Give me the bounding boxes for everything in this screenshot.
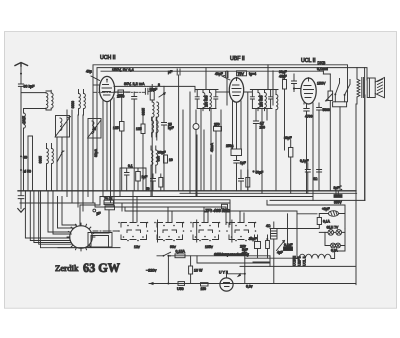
coil pair osc	[71, 90, 86, 116]
capacitor C10	[292, 74, 302, 92]
wire T2 top	[250, 65, 278, 90]
rectifier stack	[266, 222, 277, 284]
svg-text:12v: 12v	[134, 245, 140, 249]
coil L1	[46, 90, 53, 110]
svg-text:50µF: 50µF	[256, 171, 264, 175]
rectifier tube UY II	[219, 271, 246, 292]
resistor R9 10W	[189, 256, 203, 284]
svg-text:150V, 2V 6,4: 150V, 2V 6,4	[112, 68, 134, 72]
svg-text:UCH II: UCH II	[100, 55, 116, 61]
svg-text:4Ω: 4Ω	[266, 224, 271, 228]
tube UCH II U1	[99, 76, 114, 101]
T2 capacitor left	[250, 90, 254, 109]
resistor R8 on line	[334, 195, 343, 205]
svg-text:250µ: 250µ	[226, 144, 234, 148]
svg-text:74 Ω: 74 Ω	[104, 197, 112, 201]
grid arrow UBF	[222, 76, 230, 80]
svg-text:0,1A: 0,1A	[323, 220, 331, 224]
speaker SP	[367, 78, 384, 98]
IF coil pair 2 under UCH	[152, 117, 158, 137]
left vertical wires group 1	[57, 110, 72, 203]
svg-text:150: 150	[201, 287, 207, 291]
label 80V line	[114, 91, 130, 93]
svg-text:41mA: 41mA	[210, 142, 214, 152]
svg-text:125: 125	[113, 126, 119, 130]
wire UCH grid left	[93, 84, 100, 86]
electrolytic C50a	[249, 235, 261, 258]
mains switch S1	[334, 79, 350, 102]
IF2 coil pair lower	[151, 146, 160, 197]
dial nested boxes	[88, 233, 112, 248]
svg-text:150V: 150V	[317, 82, 326, 86]
grid cap arrow UCH	[86, 70, 100, 81]
sub rc network box	[120, 164, 147, 197]
svg-text:Zerdik: Zerdik	[55, 263, 79, 273]
svg-text:30µF: 30µF	[279, 70, 287, 74]
svg-text:4µF: 4µF	[277, 251, 283, 255]
top bus A	[93, 65, 348, 155]
voltage labels under cans	[134, 244, 246, 249]
wire block top link	[270, 228, 297, 230]
IF transformer T1 coils	[203, 90, 211, 111]
resistor 74ohm box	[104, 197, 114, 205]
labels 30uF 40uF	[279, 70, 287, 79]
svg-text:2000: 2000	[38, 156, 42, 164]
svg-text:105v: 105v	[205, 245, 213, 249]
T2 extra coil	[276, 90, 278, 191]
mains switch S2	[163, 252, 171, 256]
svg-text:1µF: 1µF	[142, 175, 148, 179]
resistor small on y207	[222, 204, 228, 209]
svg-text:0,1: 0,1	[128, 164, 133, 168]
rectangle outline around UCL top	[227, 71, 273, 105]
wire stubs to IF cans	[133, 191, 244, 242]
pot P1 circle	[193, 110, 199, 197]
svg-text:40µ: 40µ	[86, 70, 92, 74]
ground bus y191	[18, 190, 356, 192]
wire boxes to dial	[92, 210, 109, 233]
svg-text:3µF: 3µF	[334, 186, 340, 190]
AVC dash line	[93, 91, 145, 93]
wire UCH plate	[114, 86, 195, 89]
node dot near dial	[93, 209, 101, 215]
wires below UBF	[233, 101, 242, 149]
lamp cluster PTC	[331, 243, 341, 252]
electrolytic 4uF blob	[277, 247, 293, 255]
tap arrow rectifier	[277, 241, 293, 251]
node 50uF	[252, 170, 263, 174]
svg-text:0,1µF: 0,1µF	[300, 159, 309, 163]
resistor box under UBF	[226, 144, 242, 156]
wavetrap arrow	[57, 151, 64, 162]
svg-text:0000: 0000	[71, 101, 75, 109]
wires bend into dial top	[20, 197, 230, 226]
svg-text:40µF: 40µF	[279, 75, 287, 79]
psu block bottom wires	[240, 229, 355, 267]
top bus C	[101, 70, 323, 72]
tube UCL II U3	[301, 77, 316, 104]
svg-text:µF: µF	[97, 212, 101, 216]
tube UBF II U2	[229, 77, 243, 102]
NTC resistor	[297, 214, 331, 229]
right vertical wires	[356, 95, 365, 285]
label 86kpF	[158, 83, 165, 97]
svg-text:8: 8	[158, 83, 160, 87]
wire y207 y211	[112, 197, 297, 212]
svg-text:50: 50	[146, 187, 150, 191]
components right mid	[284, 136, 293, 193]
svg-text:250: 250	[260, 126, 266, 130]
dial lamps	[325, 226, 345, 236]
coil L2	[22, 113, 26, 191]
svg-text:75V: 75V	[238, 72, 245, 76]
resistor R4 250	[214, 123, 222, 191]
PSU block: oval thermal fuse	[322, 207, 339, 216]
wire left pair	[28, 136, 33, 191]
left vertical wires group 2	[78, 115, 93, 211]
wire L1 to left coil	[24, 109, 47, 114]
svg-text:UCL II: UCL II	[301, 58, 316, 64]
node dot antenna	[20, 73, 22, 75]
svg-text:5000: 5000	[323, 108, 331, 112]
IF coil pair under UCH	[141, 102, 159, 197]
vertical joint x168	[167, 255, 169, 285]
wire antenna branch	[21, 93, 46, 191]
mid vertical wires	[183, 92, 221, 197]
svg-text:125: 125	[136, 127, 142, 131]
capacitor C4 40uF	[215, 72, 228, 78]
svg-text:80V, 2,2 mA: 80V, 2,2 mA	[124, 82, 145, 86]
wire T1 top	[195, 68, 218, 92]
svg-text:M 50: M 50	[23, 170, 31, 174]
heater choke humps	[293, 254, 335, 258]
capacitor C13 3uF	[334, 186, 340, 195]
components row under IF1	[146, 174, 163, 191]
resistor R7	[283, 74, 287, 150]
resistor 10 small	[158, 151, 173, 164]
wire UCL top corner	[322, 71, 324, 74]
svg-text:~220v: ~220v	[146, 269, 157, 273]
tuning capacitor dial	[67, 223, 95, 251]
electrolytic dots	[340, 185, 342, 190]
fuse F1 0.15A	[175, 250, 185, 258]
svg-text:1µF: 1µF	[240, 161, 246, 165]
svg-text:350V: 350V	[334, 201, 343, 205]
T1 capacitor left	[195, 90, 199, 109]
wire psu top	[297, 211, 345, 258]
svg-text:+2µF: +2µF	[322, 207, 330, 211]
wire T2 bottom	[252, 109, 272, 194]
svg-text:2000: 2000	[117, 95, 125, 99]
svg-text:30µF: 30µF	[158, 151, 166, 155]
dashed can dots	[118, 222, 256, 242]
capacitor C8	[253, 121, 265, 170]
wire speaker top	[365, 68, 367, 80]
bus y196	[100, 196, 313, 198]
wire x330 top	[323, 73, 330, 75]
capacitor C14	[300, 159, 310, 193]
resistor box 2	[105, 206, 115, 210]
resistor 2000 on AVC	[117, 90, 125, 99]
ground arrow	[18, 209, 24, 213]
top bus B	[97, 68, 365, 201]
mains rail top	[157, 255, 270, 257]
capacitor 50uF mid	[145, 88, 157, 95]
wire UBF plate	[244, 92, 252, 191]
capacitor C6 25kpF	[162, 86, 174, 190]
capacitor C2 to ground	[18, 191, 24, 209]
wire y205 to psu	[267, 200, 345, 213]
svg-text:10: 10	[169, 158, 173, 162]
capacitor C12 5000	[317, 103, 330, 191]
capacitor C11 4700	[304, 104, 313, 119]
psu inner verticals	[286, 214, 288, 247]
dashed IF can row	[121, 223, 255, 240]
cap 5uF	[242, 245, 248, 284]
wavetrap coils	[38, 144, 53, 191]
svg-text:0,15A: 0,15A	[176, 250, 186, 254]
resistor vertical small	[266, 239, 270, 258]
svg-text:0,1µF: 0,1µF	[284, 243, 293, 247]
oscillator box OSC2	[88, 119, 102, 139]
dash-dot gang link	[93, 230, 118, 232]
IF transformer T2 coils	[258, 90, 266, 111]
T2 capacitor right	[269, 90, 273, 109]
svg-text:UBF II: UBF II	[230, 56, 245, 62]
svg-text:50µF: 50µF	[249, 237, 257, 241]
capacitor C9	[239, 170, 244, 191]
capacitor C-ant 80kpF	[18, 84, 35, 93]
resistor R3 125	[136, 110, 145, 191]
label 75V box	[237, 71, 257, 76]
svg-text:80 kpF: 80 kpF	[24, 85, 36, 89]
svg-text:M: M	[93, 127, 96, 131]
node dot x21 y170	[20, 169, 31, 174]
svg-text:300: 300	[156, 156, 160, 162]
bus y193	[180, 192, 357, 194]
svg-text:4Ω: 4Ω	[313, 177, 318, 181]
mid drop wires to dial	[48, 191, 77, 234]
capacitor C15	[313, 170, 322, 191]
capacitor under UBF	[234, 156, 246, 191]
resistor R5	[246, 170, 250, 191]
wire rail to block	[197, 256, 270, 267]
wire T1 bottom	[197, 109, 216, 191]
wire UBF left grid	[216, 91, 229, 93]
oscillator box OSC1	[55, 116, 71, 138]
svg-text:250: 250	[214, 123, 220, 127]
capacitor C3 0.1uF on bus	[168, 69, 180, 191]
resistor U50 on rail	[177, 282, 185, 291]
node dot x21 y156	[20, 155, 27, 159]
wires below UCL	[304, 103, 313, 200]
resistor R1 under UCH	[113, 94, 124, 190]
svg-text:30µF: 30µF	[284, 136, 292, 140]
resistor R2	[150, 85, 154, 103]
svg-text:6,3v: 6,3v	[246, 285, 253, 289]
mid horizontal lines lower	[125, 203, 230, 225]
output transformer TR1	[357, 68, 363, 104]
bus y200	[270, 199, 365, 201]
svg-text:98v: 98v	[170, 245, 176, 249]
switch box	[333, 102, 347, 191]
antenna	[15, 63, 28, 85]
capacitor C5 under UCH	[132, 92, 137, 191]
svg-text:200 500: 200 500	[260, 95, 264, 107]
resistor on rail right	[201, 283, 209, 291]
svg-text:tg=4: tg=4	[249, 72, 256, 76]
svg-text:63 GW: 63 GW	[83, 261, 120, 275]
svg-text:80µA: 80µA	[94, 148, 98, 157]
svg-text:U50: U50	[177, 287, 184, 291]
svg-text:GLH 7V: GLH 7V	[327, 226, 340, 230]
T1 capacitor right	[214, 90, 218, 109]
volume pot P2	[326, 74, 333, 191]
svg-text:40µF: 40µF	[215, 72, 223, 76]
svg-text:10 W: 10 W	[194, 269, 203, 273]
electrolytic C50b	[266, 235, 268, 240]
mains rail bottom	[149, 282, 356, 285]
wires under UCH pins	[103, 98, 114, 207]
svg-text:0,1mal: 0,1mal	[317, 67, 328, 71]
svg-text:30: 30	[23, 156, 27, 160]
left drop wires to dial	[25, 191, 76, 248]
wire dial bottom tangent	[58, 247, 120, 249]
svg-text:200 500: 200 500	[205, 95, 209, 107]
svg-text:UCL II: UCL II	[303, 256, 307, 266]
svg-text:2000: 2000	[22, 116, 26, 124]
rotated heater labels	[293, 256, 307, 266]
